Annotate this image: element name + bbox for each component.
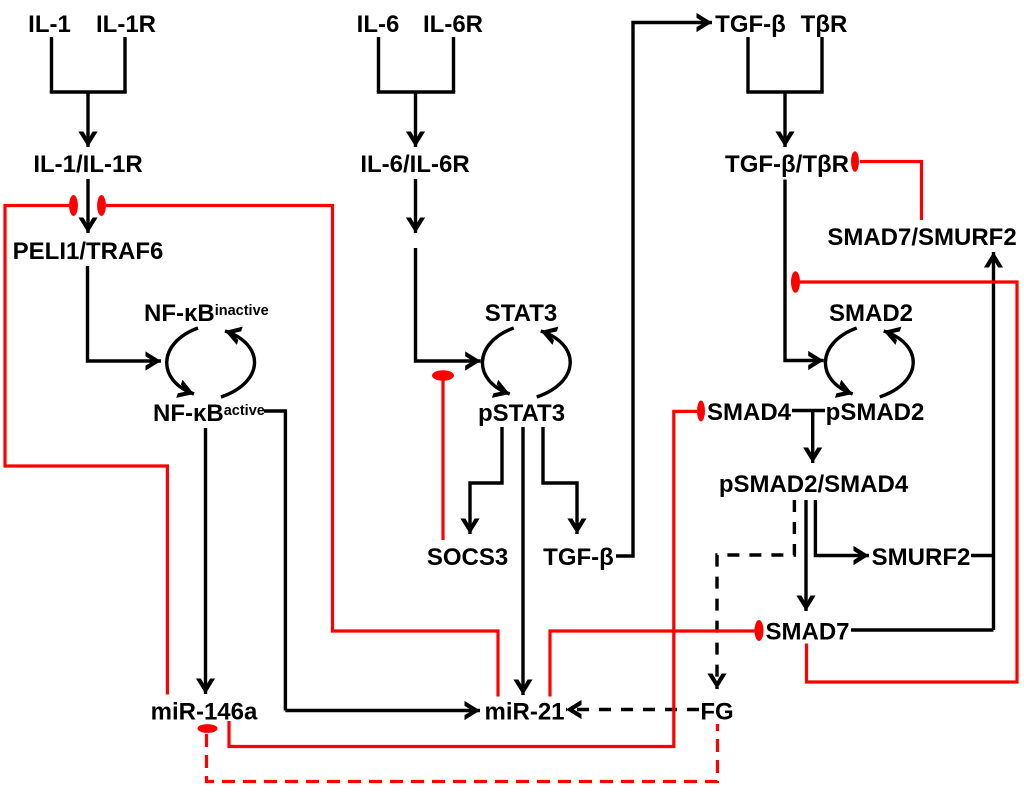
svg-text:SMURF2: SMURF2 bbox=[872, 544, 971, 571]
arrow SMAD4/pSMAD2 to pSMAD2/SMAD4 bbox=[811, 411, 814, 464]
arrow IL-6 path into STAT3 cycle bbox=[416, 248, 481, 361]
svg-text:PELI1/TRAF6: PELI1/TRAF6 bbox=[13, 238, 164, 265]
arrow IL-6/IL-6R down bbox=[414, 179, 417, 233]
inhibitor ellipse on IL-1 arrow right bbox=[97, 195, 106, 216]
svg-text:IL-1: IL-1 bbox=[28, 11, 71, 38]
wire red SMAD7/SMURF2 inhibit TGF-b/TbR bbox=[860, 162, 922, 221]
arrow IL-1/IL-1R to PELI1/TRAF6 bbox=[86, 179, 89, 233]
arrow pSTAT3 to TGF-b bbox=[543, 427, 577, 534]
wire IL-6 junction horizontal bbox=[377, 90, 455, 93]
arrow pSMAD2/SMAD4 to SMAD7 bbox=[804, 500, 807, 611]
svg-text:pSMAD2/SMAD4: pSMAD2/SMAD4 bbox=[719, 471, 909, 498]
wire IL-6R branch right bbox=[452, 37, 455, 92]
arrow IL-6 junction to IL-6/IL-6R bbox=[414, 92, 417, 147]
wire TGF-b junction horizontal bbox=[746, 90, 823, 93]
svg-text:SMAD2: SMAD2 bbox=[829, 300, 913, 327]
arrow TGF-b junction to TGF-b/TbR bbox=[783, 92, 786, 147]
svg-text:SMAD7: SMAD7 bbox=[765, 619, 849, 646]
svg-text:miR-146a: miR-146a bbox=[151, 699, 258, 726]
svg-text:IL-1/IL-1R: IL-1/IL-1R bbox=[33, 151, 142, 178]
arrow IL-1 junction to IL-1/IL-1R bbox=[86, 92, 89, 147]
wire TbR branch right bbox=[820, 37, 823, 92]
inhibitor ellipse below miR-146a bbox=[198, 724, 218, 733]
arrow NF-kB cycle left arc bbox=[167, 328, 198, 394]
wire IL-1 branch left bbox=[50, 37, 53, 92]
arrow SMAD7/SMURF2 complex up bbox=[992, 252, 995, 630]
wire SMURF2 right connector bbox=[971, 554, 994, 557]
arrow STAT3 cycle left arc bbox=[482, 328, 513, 394]
arrow PELI1/TRAF6 into NF-kB cycle bbox=[88, 266, 162, 361]
svg-text:TGF-β: TGF-β bbox=[715, 11, 786, 38]
svg-text:IL-6R: IL-6R bbox=[423, 11, 483, 38]
arrow dashed pSMAD2/SMAD4 to FG bbox=[717, 500, 794, 689]
svg-text:miR-21: miR-21 bbox=[484, 699, 564, 726]
wire red miR-21 inhibit SMAD7 bbox=[550, 631, 755, 697]
inhibitor ellipse SOCS3 at pSTAT3 bbox=[432, 370, 454, 381]
svg-text:TβR: TβR bbox=[801, 11, 848, 38]
svg-text:SMAD7/SMURF2: SMAD7/SMURF2 bbox=[827, 224, 1016, 251]
arrow STAT3 cycle right arc bbox=[537, 331, 571, 397]
wire TGF-b branch left bbox=[746, 37, 749, 92]
arrow pSTAT3 to SOCS3 bbox=[470, 427, 502, 534]
svg-text:IL-6: IL-6 bbox=[357, 11, 400, 38]
arrow pSMAD2/SMAD4 to SMURF2 bbox=[815, 500, 869, 556]
wire red miR-21 inhibit IL-1 pathway right loop bbox=[106, 206, 498, 697]
svg-text:FG: FG bbox=[700, 699, 733, 726]
svg-text:pSMAD2: pSMAD2 bbox=[826, 399, 925, 426]
inhibitor ellipse on IL-1 arrow left bbox=[69, 195, 78, 216]
wire red dashed FG inhibit miR-146a bbox=[207, 724, 718, 782]
wire red miR-146a inhibit SMAD4 bbox=[229, 411, 697, 746]
wire red SMAD7 inhibit TGF-b/TbR-SMAD2 bbox=[800, 282, 1017, 682]
arrow SMAD2 cycle left arc bbox=[825, 328, 856, 394]
wire SMAD7 right connector bbox=[851, 628, 994, 631]
svg-text:IL-6/IL-6R: IL-6/IL-6R bbox=[360, 151, 469, 178]
svg-text:STAT3: STAT3 bbox=[485, 300, 557, 327]
inhibitor ellipse at SMAD4 bbox=[697, 401, 705, 422]
wire SMAD4 to pSMAD2 connector bbox=[792, 409, 825, 412]
arrow TGF-b/TbR into SMAD2 cycle bbox=[785, 180, 824, 361]
arrow pSTAT3 to miR-21 bbox=[521, 427, 524, 695]
wire red SOCS3 inhibit pSTAT3 bbox=[441, 380, 444, 540]
arrow dashed FG to miR-21 bbox=[566, 708, 699, 711]
wire IL-1R branch right bbox=[123, 37, 126, 92]
inhibitor ellipse on SMAD2 entry line bbox=[791, 271, 800, 292]
svg-text:SOCS3: SOCS3 bbox=[427, 544, 508, 571]
svg-text:TGF-β: TGF-β bbox=[543, 544, 614, 571]
svg-text:pSTAT3: pSTAT3 bbox=[478, 400, 565, 427]
svg-text:SMAD4: SMAD4 bbox=[707, 399, 792, 426]
wire IL-1 junction horizontal bbox=[50, 90, 127, 93]
inhibitor ellipse at TGF-b/TbR bbox=[851, 151, 859, 172]
svg-text:TGF-β/TβR: TGF-β/TβR bbox=[725, 151, 849, 178]
svg-text:IL-1R: IL-1R bbox=[96, 11, 156, 38]
inhibitor ellipse at SMAD7 bbox=[755, 620, 764, 641]
arrow into miR-21 from NF-kB active bbox=[285, 709, 480, 712]
arrow TGF-b bottom loop to TGF-b top bbox=[616, 23, 712, 557]
arrow NF-kB cycle right arc bbox=[221, 331, 255, 397]
arrow NF-kB active to miR-146a bbox=[204, 428, 207, 694]
wire IL-6 branch left bbox=[377, 37, 380, 92]
arrow SMAD2 cycle right arc bbox=[880, 331, 914, 397]
wire red miR-146a inhibit IL-1 pathway left loop bbox=[5, 206, 167, 695]
wire NF-kB active right elbow to miR-21 bbox=[264, 411, 285, 711]
